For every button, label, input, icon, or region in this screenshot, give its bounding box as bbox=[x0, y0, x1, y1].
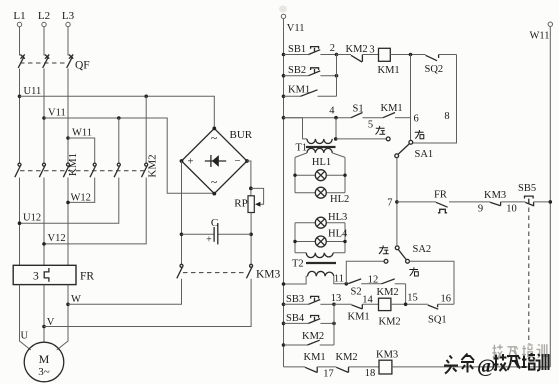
pushbutton SB2 bbox=[284, 65, 337, 76]
node on V11 bus feeding KM2 pole2 bbox=[117, 116, 121, 120]
wire KM2 pole3 bottom to V12 bbox=[44, 178, 146, 244]
node V11 bbox=[42, 108, 66, 120]
transformer T1 core bbox=[306, 146, 336, 148]
node 15 bbox=[404, 293, 418, 307]
svg-text:12: 12 bbox=[368, 274, 379, 285]
wire phase3 QF to KM1 contact bbox=[67, 69, 69, 164]
node L3 terminal bbox=[62, 10, 75, 27]
node U11 bbox=[18, 86, 42, 98]
node on U11 bus feeding KM2 pole3 bbox=[144, 95, 148, 99]
svg-text:W11: W11 bbox=[72, 128, 92, 139]
svg-text:V11: V11 bbox=[287, 23, 305, 34]
contact KM2 NC brake row bbox=[336, 352, 380, 373]
contact KM1 aux row4 bbox=[381, 103, 411, 118]
wire T2 primary left to rail bbox=[284, 276, 308, 284]
node rail T2 bbox=[282, 282, 286, 286]
node V11 control terminal bbox=[281, 14, 304, 34]
svg-text:15: 15 bbox=[407, 293, 418, 304]
svg-text:RP: RP bbox=[234, 198, 247, 210]
potentiometer RP bbox=[234, 188, 263, 212]
svg-text:BUR: BUR bbox=[230, 129, 253, 141]
svg-text:SQ1: SQ1 bbox=[428, 315, 447, 326]
node rail KM2 seal bbox=[282, 343, 286, 347]
svg-text:11: 11 bbox=[334, 273, 344, 284]
svg-text:16: 16 bbox=[441, 293, 452, 304]
wire V11 bus to bridge lower corner bbox=[44, 118, 213, 193]
node bridge right bbox=[245, 159, 249, 163]
circuit breaker QF pole 3 bbox=[67, 55, 74, 68]
svg-text:KM3: KM3 bbox=[376, 350, 398, 361]
wire phase1 QF to KM1 contact bbox=[19, 69, 21, 164]
svg-text:M: M bbox=[39, 352, 50, 366]
wire SA1 common down through node7 to SA2 bbox=[396, 158, 398, 246]
svg-text:W11: W11 bbox=[530, 31, 550, 42]
contact KM3 aux row7 bbox=[484, 190, 525, 206]
svg-text:L2: L2 bbox=[38, 10, 50, 22]
contact KM1 NC interlock rowB bbox=[334, 304, 379, 322]
svg-text:FR: FR bbox=[80, 271, 94, 283]
wire phase3 KM1 to FR bbox=[67, 178, 69, 266]
svg-text:5: 5 bbox=[368, 120, 373, 131]
svg-text:7: 7 bbox=[387, 198, 392, 209]
svg-text:T1: T1 bbox=[296, 143, 308, 154]
wire L3 down to QF bbox=[67, 27, 69, 56]
node 13 column SB4 junction bbox=[332, 322, 336, 326]
node RP top junction bbox=[249, 187, 253, 191]
svg-text:3~: 3~ bbox=[38, 366, 50, 378]
wire rowA down to node 15 bbox=[405, 284, 407, 305]
svg-text:~: ~ bbox=[211, 131, 218, 145]
wire KM2 pole1 bottom to W12 bbox=[68, 178, 95, 203]
svg-text:KM1: KM1 bbox=[67, 153, 79, 176]
wire T1 secondary to lamp box sides bbox=[295, 153, 345, 158]
wire lamp box2 right rail bbox=[344, 223, 346, 253]
wire lamp box2 left rail bbox=[294, 223, 296, 253]
node W11 control terminal bbox=[530, 22, 553, 42]
svg-text:SA1: SA1 bbox=[415, 149, 434, 160]
svg-text:14: 14 bbox=[362, 294, 373, 305]
contactor KM3 brake pole left bbox=[177, 264, 183, 278]
wire phase2 KM1 to FR bbox=[43, 178, 45, 266]
switch S2 bbox=[348, 279, 381, 298]
contactor KM2 main pole 1 bbox=[90, 163, 96, 177]
QF linkage dashed bbox=[20, 62, 66, 64]
transformer T2 secondary winding bbox=[295, 253, 345, 258]
svg-text:KM1: KM1 bbox=[304, 352, 326, 363]
lamp HL4 bbox=[293, 229, 348, 248]
transformer T1 primary feed from rail bbox=[284, 118, 308, 139]
label zuo SA2 bbox=[379, 245, 389, 254]
svg-text:T2: T2 bbox=[292, 259, 304, 270]
svg-text:SB1: SB1 bbox=[288, 44, 306, 55]
node bridge top bbox=[212, 126, 216, 130]
svg-text:U: U bbox=[21, 331, 29, 342]
pushbutton SB3 bbox=[284, 294, 335, 305]
selector SA2 bbox=[395, 244, 431, 263]
node W12 bbox=[66, 192, 91, 204]
wire L1 down to QF bbox=[19, 27, 21, 56]
svg-text:FR: FR bbox=[434, 190, 447, 201]
pushbutton SB5 NC bbox=[518, 183, 550, 206]
contactor KM1 main pole 3 bbox=[63, 163, 69, 177]
dashed link SB5 bbox=[528, 208, 530, 345]
svg-text:QF: QF bbox=[75, 60, 90, 72]
wire phase2 QF to KM1 contact bbox=[43, 69, 45, 164]
contactor KM1 main pole 1 bbox=[15, 163, 21, 177]
svg-text:3: 3 bbox=[33, 271, 39, 283]
svg-text:KM2: KM2 bbox=[346, 44, 368, 55]
contact KM1 seal-in bbox=[284, 85, 337, 97]
svg-text:L3: L3 bbox=[62, 10, 75, 22]
svg-text:W12: W12 bbox=[71, 192, 91, 203]
wire node7 to FR contact bbox=[397, 201, 436, 203]
svg-text:SA2: SA2 bbox=[413, 244, 432, 255]
coil KM2 bbox=[379, 298, 401, 327]
wire KM1 coil column down to node 6 and SA1 bbox=[410, 55, 412, 141]
wire KM2 pole2 top bbox=[118, 118, 120, 163]
contact KM2 aux rowA bbox=[377, 279, 406, 298]
label zuo SA1 bbox=[376, 126, 386, 135]
label you SA2 bbox=[409, 267, 418, 276]
contact KM2 NC interlock bbox=[337, 44, 379, 62]
node bridge left bbox=[180, 159, 184, 163]
wire coil KM1 to SQ2 bbox=[390, 54, 425, 56]
node 2 column SB2 junction bbox=[335, 74, 339, 78]
svg-text:13: 13 bbox=[331, 293, 342, 304]
svg-text:U11: U11 bbox=[24, 86, 42, 97]
node C left bbox=[180, 233, 184, 237]
svg-text:SB4: SB4 bbox=[286, 313, 305, 324]
svg-text:−: − bbox=[234, 155, 240, 167]
coil KM1 bbox=[378, 48, 400, 76]
node 4 bbox=[329, 106, 338, 120]
node rail SB2 bbox=[282, 74, 286, 78]
wire bottom row from rail bbox=[284, 366, 306, 368]
wire W11 bus to KM2 pole1 bbox=[68, 138, 95, 163]
diode inside bridge bbox=[205, 155, 226, 167]
switch S1 bbox=[351, 104, 383, 118]
svg-text:S2: S2 bbox=[351, 287, 362, 298]
svg-text:W: W bbox=[71, 294, 81, 305]
thermal contact FR control bbox=[434, 190, 490, 213]
svg-text:KM2: KM2 bbox=[336, 352, 358, 363]
wire lamp box1 right rail bbox=[344, 157, 346, 192]
watermark black toutiao at jichengpeixun bbox=[444, 353, 549, 374]
svg-text:9: 9 bbox=[478, 204, 483, 215]
node 4 column to T1 bbox=[335, 118, 337, 139]
circuit breaker QF pole 2 bbox=[43, 55, 50, 68]
wire node11 up to SA2 left bbox=[346, 261, 384, 284]
wire node16 up to SA2 right bbox=[409, 261, 454, 304]
capacitor C bbox=[182, 217, 252, 246]
svg-text:L1: L1 bbox=[13, 10, 25, 22]
label you SA1 bbox=[415, 130, 424, 139]
lamp HL1 bbox=[293, 157, 346, 181]
wire control right rail bbox=[549, 26, 551, 367]
contact KM2 seal-in bbox=[284, 331, 335, 345]
node C right bbox=[249, 233, 253, 237]
svg-text:KM1: KM1 bbox=[378, 65, 400, 76]
svg-text:KM1: KM1 bbox=[381, 103, 403, 114]
svg-text:C: C bbox=[211, 217, 218, 229]
svg-text:KM2: KM2 bbox=[302, 331, 324, 342]
svg-text:KM3: KM3 bbox=[484, 190, 506, 201]
contact KM1 NC brake row bbox=[304, 352, 337, 373]
svg-text:18: 18 bbox=[365, 368, 376, 379]
wire KM2 coil to node 15 bbox=[391, 303, 428, 305]
node L1 terminal bbox=[13, 10, 25, 27]
node bridge bottom bbox=[212, 192, 216, 196]
wire FR to motor U bbox=[20, 285, 31, 350]
node rail right FR row bbox=[549, 200, 553, 204]
svg-text:KM1: KM1 bbox=[348, 312, 370, 323]
node after KM1 coil bbox=[409, 53, 413, 57]
transformer T2 primary winding bbox=[308, 271, 334, 276]
node L2 terminal bbox=[38, 10, 50, 27]
svg-text:2: 2 bbox=[330, 43, 335, 54]
node rail row4 bbox=[282, 116, 286, 120]
pushbutton SB4 bbox=[284, 313, 335, 324]
contactor KM2 main pole 2 bbox=[114, 163, 120, 177]
svg-text:@: @ bbox=[477, 356, 496, 378]
wire row4 rail to S1 bbox=[284, 117, 352, 119]
limit switch SQ1 bbox=[428, 304, 454, 325]
pushbutton SB1 bbox=[284, 44, 337, 55]
contactor KM3 brake pole right bbox=[246, 264, 252, 278]
transformer T1 secondary winding bbox=[307, 148, 332, 153]
svg-text:KM2: KM2 bbox=[147, 154, 159, 177]
svg-text:U12: U12 bbox=[23, 213, 41, 224]
selector SA1 bbox=[395, 140, 433, 160]
watermark gray jichengpeixun bbox=[492, 343, 546, 358]
wire FR to motor V bbox=[43, 285, 45, 343]
wire KM2 pole2 bottom to U12 bbox=[20, 178, 119, 224]
wire L2 down to QF bbox=[43, 27, 45, 56]
KM3 linkage dashed bbox=[183, 272, 247, 274]
wire phase1 KM1 to FR bbox=[19, 178, 21, 266]
node T1 primary right junction bbox=[334, 137, 338, 141]
node rail SB1 bbox=[282, 53, 286, 57]
motor M 3-phase bbox=[24, 342, 64, 382]
wire FR to motor W bbox=[57, 285, 68, 350]
svg-text:~: ~ bbox=[211, 175, 218, 189]
wire RP to C junction bbox=[250, 213, 252, 265]
svg-text:HL1: HL1 bbox=[312, 157, 331, 168]
node 11 bbox=[334, 273, 348, 285]
terminal SA2 left bbox=[384, 259, 388, 263]
svg-text:8: 8 bbox=[444, 111, 449, 122]
svg-text:V11: V11 bbox=[48, 108, 66, 119]
svg-text:6: 6 bbox=[414, 114, 419, 125]
node V bbox=[42, 317, 55, 328]
node W11 bbox=[66, 128, 92, 140]
wire node13 column bbox=[333, 304, 335, 345]
transformer T2 core bbox=[306, 262, 336, 264]
wire control left rail bbox=[283, 19, 285, 367]
bridge rectifier BUR diamond bbox=[182, 128, 248, 193]
svg-text:4: 4 bbox=[329, 106, 335, 117]
svg-text:SB3: SB3 bbox=[286, 294, 304, 305]
node 7 bbox=[387, 198, 398, 209]
wire KM3 right to node V bbox=[44, 279, 251, 327]
svg-text:HL3: HL3 bbox=[328, 212, 347, 223]
svg-text:HL2: HL2 bbox=[330, 194, 349, 205]
svg-text:KM3: KM3 bbox=[256, 269, 281, 281]
contactor KM1 main pole 2 bbox=[39, 163, 45, 177]
node 13 bbox=[331, 293, 342, 306]
circuit breaker QF pole 1 bbox=[18, 55, 25, 68]
wire bridge left down bbox=[181, 161, 183, 264]
wire U11 bus to bridge bbox=[20, 96, 215, 128]
svg-text:KM2: KM2 bbox=[377, 287, 399, 298]
thermal relay FR box bbox=[13, 265, 94, 284]
lamp HL2 bbox=[295, 187, 349, 205]
svg-text:SB2: SB2 bbox=[288, 65, 306, 76]
node 2 bbox=[330, 43, 339, 57]
wire node2 column bbox=[336, 55, 338, 97]
svg-text:V12: V12 bbox=[48, 233, 66, 244]
svg-text:SB5: SB5 bbox=[518, 183, 536, 194]
wire SQ2 loop down to SA1 right bbox=[413, 55, 457, 144]
svg-text:+: + bbox=[206, 235, 212, 246]
node U12 bbox=[18, 213, 41, 226]
svg-text:SQ2: SQ2 bbox=[425, 64, 444, 75]
contactor KM2 main pole 3 bbox=[142, 163, 148, 177]
svg-text:HL4: HL4 bbox=[328, 229, 348, 240]
node W bbox=[66, 294, 81, 306]
svg-text:+: + bbox=[187, 156, 193, 168]
wire lamp box1 left rail bbox=[294, 157, 296, 192]
wire KM3 left to node W bbox=[68, 279, 182, 305]
node rail KM1 seal bbox=[282, 95, 286, 99]
node rail SB4 bbox=[282, 322, 286, 326]
wire T2 primary right to node 11 bbox=[334, 276, 347, 284]
svg-text:3: 3 bbox=[369, 45, 374, 56]
svg-text:10: 10 bbox=[506, 204, 517, 215]
wire KM2 pole3 top bbox=[145, 96, 147, 163]
terminal SA1 left bbox=[386, 137, 390, 141]
transformer T1 primary winding bbox=[307, 139, 332, 144]
KM1 KM2 linkage dashed bbox=[20, 170, 147, 172]
lamp HL3 bbox=[295, 212, 347, 228]
limit switch SQ2 bbox=[425, 55, 457, 76]
svg-text:KM2: KM2 bbox=[379, 317, 401, 328]
wire bridge right to RP bbox=[247, 161, 251, 196]
coil KM3 bbox=[376, 350, 398, 375]
svg-text:17: 17 bbox=[323, 369, 334, 380]
faint smudge near V11 bbox=[279, 6, 287, 13]
wire KM3 coil to right rail bbox=[392, 366, 550, 368]
node V12 bbox=[42, 233, 65, 246]
wire to SA1 left terminal bbox=[336, 138, 387, 140]
node rail SB3 bbox=[282, 303, 286, 307]
